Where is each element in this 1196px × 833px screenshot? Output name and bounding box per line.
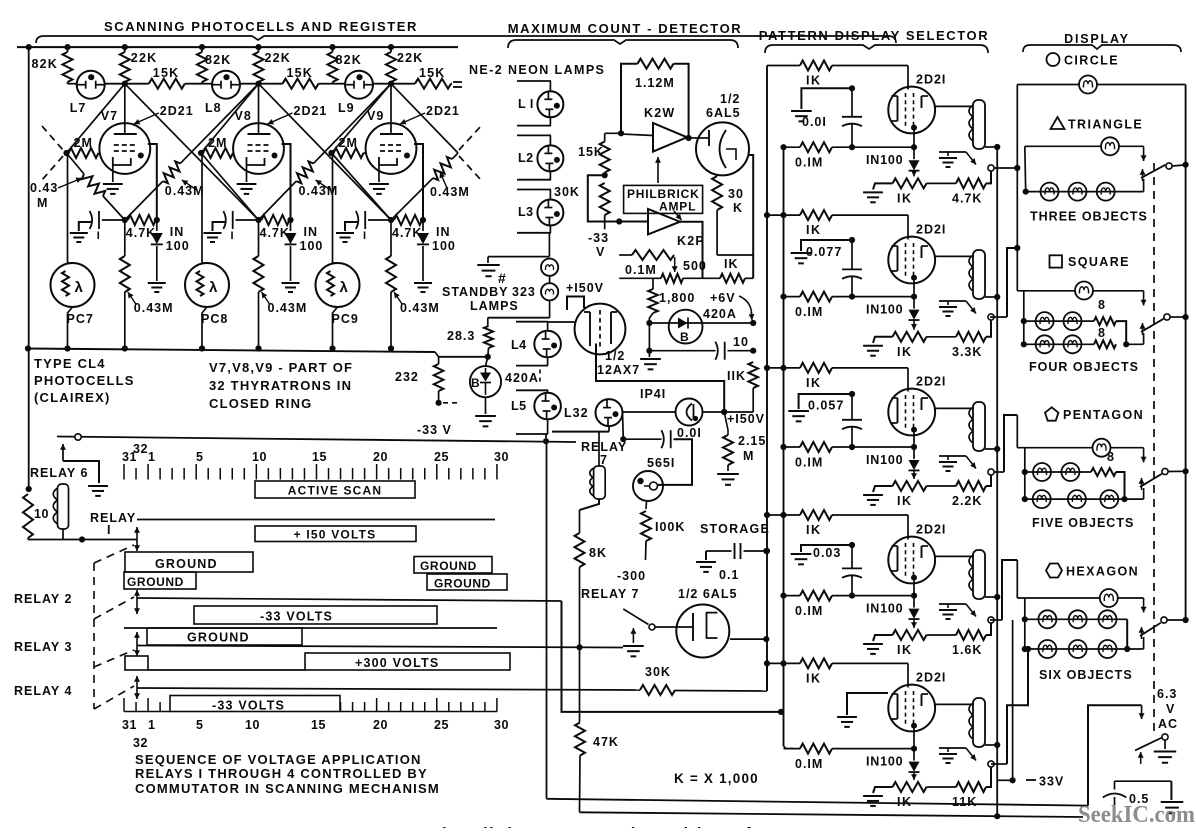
grid capacitor block stage 1 [801, 88, 852, 109]
svg-text:IK: IK [806, 223, 822, 237]
thyratron 2D21 stage 5 [888, 685, 935, 732]
thyratron 2D21 stage 4 [888, 537, 935, 584]
standby lamps ground [488, 256, 549, 258]
potentiometer 1K stage 2 [893, 332, 927, 342]
resistor 0.43M on cross wire 1 [163, 161, 180, 183]
svg-text:TRIANGLE: TRIANGLE [1068, 118, 1143, 132]
svg-text:82K: 82K [32, 57, 59, 71]
arrow box to K2P [674, 211, 682, 220]
svg-text:ACTIVE SCAN: ACTIVE SCAN [288, 484, 383, 498]
svg-text:1/2: 1/2 [720, 92, 740, 106]
photocell PC7 [67, 153, 69, 263]
junction on top bus [199, 44, 205, 50]
V7 cathode [113, 157, 131, 165]
resistor 1,800 [652, 278, 654, 289]
resistor 4.7K stage 9 [394, 215, 422, 225]
svg-text:30: 30 [728, 187, 744, 201]
svg-text:8: 8 [1107, 450, 1114, 464]
tube 1/2 6AL5 (relay7) [676, 605, 729, 658]
wire L3 to standby lamps [548, 233, 550, 257]
svg-text:0.IM: 0.IM [795, 305, 823, 319]
svg-text:0.1M: 0.1M [625, 263, 657, 277]
resistor 2M (stage 9) [334, 148, 364, 158]
svg-text:V8: V8 [235, 109, 252, 123]
svg-text:L7: L7 [70, 101, 87, 115]
display lamp hexagon-group [1017, 597, 1099, 599]
PHILBRICK AMPL box [624, 185, 703, 213]
V9 plate [380, 133, 403, 135]
svg-text:SCANNING PHOTOCELLS AND REGIST: SCANNING PHOTOCELLS AND REGISTER [104, 19, 418, 34]
wire standby to 28.3 [549, 300, 551, 317]
V7 plate lead [124, 84, 126, 134]
svg-text:RELAY 4: RELAY 4 [14, 684, 72, 698]
neon lamp L3 [517, 189, 551, 191]
selector switch pentagon-group [1140, 474, 1162, 487]
AC switch [1135, 738, 1162, 751]
svg-text:I: I [231, 230, 234, 242]
bottom scale -33 VOLTS box [170, 696, 340, 712]
svg-text:IK: IK [897, 345, 913, 359]
svg-text:+I50V: +I50V [566, 281, 604, 295]
output coil stage 5 [973, 698, 985, 747]
svg-text:1: 1 [148, 450, 155, 464]
svg-text:RELAYS I THROUGH 4 CONTROLLED: RELAYS I THROUGH 4 CONTROLLED BY [135, 766, 428, 781]
selector switch hexagon-group [1140, 623, 1161, 636]
brace under display title [1023, 45, 1181, 52]
12AX7 cathode wire [596, 344, 724, 413]
svg-text:2D21: 2D21 [426, 104, 460, 118]
thyratron 2D21 stage 2 [888, 237, 935, 284]
svg-text:K: K [733, 201, 743, 215]
display dashed common [1153, 163, 1155, 731]
tube cathode wire stage 2 [913, 281, 915, 297]
coupling to plate coil stage 4 [935, 555, 973, 557]
svg-text:30K: 30K [645, 665, 671, 679]
svg-text:4.7K: 4.7K [952, 191, 982, 205]
icon pentagon [1045, 407, 1058, 420]
resistor 0.1M stage 3 [780, 444, 786, 450]
svg-text:λ: λ [340, 279, 349, 296]
V7 internal dot [138, 153, 144, 159]
GROUND box relay3 [147, 628, 302, 645]
capacitor 10 [646, 348, 652, 354]
svg-text:HEXAGON: HEXAGON [1066, 565, 1139, 579]
resistor 1.6K stage 4 [927, 634, 957, 636]
resistor 1K grid stage 4 [764, 512, 770, 518]
junction on top bus [388, 44, 394, 50]
display feed stage4 [990, 619, 1002, 621]
junction storage line on outer bus [764, 548, 770, 554]
svg-text:15K: 15K [153, 66, 180, 80]
V7 anode-to-ring wire [148, 144, 157, 220]
svg-text:0.057: 0.057 [808, 399, 844, 413]
selector contact stage 2 [988, 314, 994, 320]
coil return to lamp bus stage 3 [985, 448, 997, 450]
icon circle [1047, 53, 1060, 66]
six objects lamp row 1 [1022, 616, 1028, 622]
selector switch ground stage 2 [939, 300, 966, 302]
svg-text:IN: IN [304, 225, 319, 239]
junction 4.7K right stage 7 [154, 217, 160, 223]
coil return to lamp bus stage 4 [985, 596, 997, 598]
svg-text:LAMPS: LAMPS [470, 299, 519, 313]
svg-text:IN100: IN100 [866, 755, 903, 769]
output coil stage 2 [973, 250, 985, 299]
svg-text:PC8: PC8 [201, 312, 228, 326]
resistor 1K grid stage 3 [764, 365, 770, 371]
12AX7 input from lamp chain [548, 321, 575, 323]
commutator scale ticks top [123, 464, 125, 480]
svg-text:1.6K: 1.6K [952, 643, 982, 657]
svg-text:11K: 11K [952, 795, 977, 809]
svg-text:25: 25 [434, 450, 449, 464]
grid capacitor block stage 2 [801, 240, 852, 251]
svg-text:STORAGE: STORAGE [700, 522, 770, 536]
standby lamp A [541, 259, 558, 276]
relay 4 linkage arrow [136, 676, 138, 687]
junction on top bus [122, 44, 128, 50]
relay 3 linkage arrow [136, 632, 138, 644]
display feed stage2 [990, 316, 1007, 318]
junction relay6 line [543, 438, 549, 444]
svg-text:IN100: IN100 [866, 303, 903, 317]
selector outer bus [766, 66, 768, 692]
svg-text:232: 232 [395, 370, 419, 384]
svg-text:IN100: IN100 [866, 153, 903, 167]
resistor 2.2K stage 3 [927, 485, 957, 487]
resistor 28.3 [487, 318, 489, 326]
junction on top bus [255, 44, 261, 50]
V8 plate [248, 133, 271, 135]
resistor 0.1M stage 5 [784, 748, 801, 750]
svg-text:47K: 47K [593, 735, 619, 749]
svg-text:IK: IK [897, 494, 913, 508]
selector contact stage 5 [988, 761, 994, 767]
svg-text:2D2I: 2D2I [916, 223, 946, 237]
grid capacitor block stage 3 [799, 394, 852, 409]
wire 6AL5 cathode down [749, 155, 754, 278]
svg-text:SQUARE: SQUARE [1068, 255, 1130, 269]
diamond edges stage 7 [67, 84, 125, 153]
wire grid to tube stage 3 [907, 368, 909, 392]
svg-text:IK: IK [897, 643, 913, 657]
relay 6 contact line [57, 437, 576, 443]
svg-text:IIK: IIK [727, 369, 746, 383]
display lamp circle-group [1017, 84, 1079, 86]
svg-text:FIVE OBJECTS: FIVE OBJECTS [1032, 516, 1134, 530]
arrow from 2D21 label to V8 [268, 113, 293, 124]
svg-text:IP4I: IP4I [640, 387, 666, 401]
wire grid to tube stage 2 [907, 215, 909, 239]
svg-text:TYPE CL4: TYPE CL4 [34, 356, 106, 371]
coil return to lamp bus stage 1 [985, 146, 997, 148]
svg-text:IN100: IN100 [866, 453, 903, 467]
resistor 30 K (6AL5 load) [712, 176, 722, 210]
resistor 0.1M stage 1 [780, 144, 786, 150]
V7 grid (dashed) [114, 144, 136, 146]
svg-text:-33 VOLTS: -33 VOLTS [212, 699, 285, 713]
svg-text:420A: 420A [703, 307, 737, 321]
V7 plate [114, 133, 137, 135]
wire grid to tube stage 4 [907, 515, 909, 540]
svg-text:I: I [363, 230, 366, 242]
potentiometer 1K stage 4 [893, 630, 927, 640]
svg-text:25: 25 [434, 718, 449, 732]
svg-text:STANDBY: STANDBY [442, 285, 509, 299]
small box relay4 row [125, 656, 148, 670]
svg-text:PENTAGON: PENTAGON [1063, 408, 1144, 422]
diode IN100 stage 7 [156, 220, 158, 231]
photocell PC8 [201, 153, 203, 263]
junction 28.3 / 232 / diode B [485, 354, 491, 360]
svg-text:-33: -33 [588, 231, 609, 245]
resistor 82K (stage 8) [201, 47, 203, 52]
svg-text:22K: 22K [131, 51, 158, 65]
svg-text:0.03: 0.03 [813, 546, 841, 560]
svg-text:8K: 8K [589, 546, 607, 560]
svg-text:15K: 15K [578, 145, 604, 159]
junction left vertex stage 9 [328, 150, 334, 156]
svg-text:-300: -300 [617, 569, 646, 583]
resistor 11K stage 5 [927, 786, 957, 788]
svg-text:0.43M: 0.43M [400, 301, 440, 315]
resistor 2M (stage 7) [69, 148, 99, 158]
svg-text:RELAY 7: RELAY 7 [581, 587, 639, 601]
thyratron 2D21 stage 1 [888, 87, 935, 134]
resistor 0.43M right of V9 [433, 157, 452, 180]
svg-text:PC9: PC9 [332, 312, 359, 326]
ring cross wire 7b with 0.43M [180, 84, 258, 164]
neon lamp L2 [517, 134, 551, 136]
diode IN100 stage 8 [290, 220, 292, 231]
potentiometer 500 [619, 277, 661, 279]
relay 2 GROUND box c [414, 557, 492, 574]
svg-text:0.IM: 0.IM [795, 156, 823, 170]
tube cathode wire stage 3 [913, 433, 915, 448]
svg-text:NE-2 NEON LAMPS: NE-2 NEON LAMPS [469, 63, 605, 77]
V8 grid (dashed) [248, 144, 270, 146]
relay 3 rest line [124, 627, 497, 629]
potentiometer 500 wiper arrow [674, 257, 676, 272]
four objects lamp row 1 [1021, 318, 1027, 324]
resistor 0.1M stage 2 [780, 294, 786, 300]
three objects lamp row [1023, 189, 1029, 195]
tube cathode wire stage 1 [913, 131, 915, 148]
diamond edges stage 9 [332, 84, 392, 153]
mechanical linkage dashed lines [93, 563, 95, 709]
resistor 4.7K stage 8 [262, 215, 290, 225]
svg-text:15K: 15K [419, 66, 446, 80]
svg-text:20: 20 [373, 450, 388, 464]
resistor 82K (stage 7) [67, 47, 69, 52]
junction on top bus [26, 44, 32, 50]
bottom vertex junction stage 9 [388, 217, 394, 223]
svg-text:RELAY 3: RELAY 3 [14, 640, 72, 654]
resistor 15K (stage 8) [259, 83, 283, 85]
svg-text:420A: 420A [505, 371, 539, 385]
svg-text:IK: IK [724, 257, 739, 271]
resistor 82K (stage 9) [332, 47, 334, 52]
four objects lamp row 2 [1021, 341, 1027, 347]
svg-text:0.IM: 0.IM [795, 757, 823, 771]
svg-text:IK: IK [806, 523, 822, 537]
svg-text:2D21: 2D21 [294, 104, 328, 118]
resistor 3.3K stage 2 [927, 336, 957, 338]
svg-text:10: 10 [34, 507, 49, 521]
svg-text:30: 30 [494, 718, 509, 732]
svg-text:30K: 30K [554, 185, 580, 199]
svg-text:323: 323 [512, 285, 536, 299]
svg-text:2D2I: 2D2I [916, 375, 946, 389]
wire grid to tube stage 5 [907, 663, 909, 687]
storage capacitor 0.1 [706, 550, 732, 552]
display lamp square-group [1017, 290, 1075, 292]
svg-text:1: 1 [148, 718, 155, 732]
resistor 232 [435, 352, 439, 357]
svg-text:THREE OBJECTS: THREE OBJECTS [1030, 210, 1148, 224]
relay 7 coil [552, 431, 609, 433]
continuation mark [453, 81, 462, 83]
svg-text:IN100: IN100 [866, 602, 903, 616]
svg-text:hen lights up at each pos: hen lights up at each position of [442, 824, 752, 828]
display right bus [1185, 85, 1187, 621]
svg-text:0.IM: 0.IM [795, 604, 823, 618]
svg-text:-33 VOLTS: -33 VOLTS [260, 610, 333, 624]
svg-text:100: 100 [300, 239, 324, 253]
svg-text:1.12M: 1.12M [635, 76, 675, 90]
svg-text:0.1: 0.1 [719, 568, 739, 582]
svg-text:PHOTOCELLS: PHOTOCELLS [34, 373, 135, 388]
coil return to lamp bus stage 5 [985, 744, 997, 746]
svg-text:L4: L4 [511, 338, 527, 352]
photocell PC9 [332, 153, 334, 263]
grid capacitor block stage 4 [801, 545, 852, 552]
tube cathode wire stage 5 [913, 729, 915, 749]
svg-text:V7: V7 [101, 109, 118, 123]
selector inner bus [783, 147, 785, 746]
relay 1 timing line [137, 519, 495, 521]
five objects lamp row 1 [1022, 469, 1028, 475]
svg-text:SeekIC.com: SeekIC.com [1078, 802, 1195, 828]
svg-text:6AL5: 6AL5 [706, 106, 741, 120]
svg-text:SEQUENCE OF VOLTAGE APPLICATIO: SEQUENCE OF VOLTAGE APPLICATION [135, 752, 422, 767]
svg-text:RELAY: RELAY [90, 511, 136, 525]
svg-text:GROUND: GROUND [420, 559, 477, 573]
relay 2 GROUND box a [125, 552, 253, 572]
svg-text:1/2: 1/2 [605, 349, 625, 363]
wire relay7 coil to 8K [580, 499, 600, 510]
bottom feed line to AC switch [546, 441, 548, 799]
svg-text:0.077: 0.077 [806, 245, 842, 259]
brace under middle title [508, 40, 738, 48]
svg-text:2D2I: 2D2I [916, 73, 946, 87]
svg-text:33V: 33V [1039, 775, 1064, 789]
resistor 22K (stage 8) [258, 47, 260, 52]
tube cathode wire stage 4 [913, 581, 915, 596]
K2P output wire [680, 222, 703, 279]
relay2 wire down and to selector bus [562, 601, 782, 712]
svg-text:GROUND: GROUND [155, 557, 218, 571]
junction 15K/30K [604, 173, 606, 176]
svg-text:28.3: 28.3 [447, 329, 475, 343]
relay 6 coil [62, 444, 64, 461]
resistor 1.12M feedback [621, 64, 638, 134]
svg-text:15: 15 [311, 718, 326, 732]
junction bottom bus stage 8 [255, 345, 261, 351]
resistor 1K grid stage 2 [764, 212, 770, 218]
svg-text:2D2I: 2D2I [916, 671, 946, 685]
neon lamp L1 [517, 80, 551, 82]
resistor 1K grid stage 5 [764, 660, 770, 666]
six objects lamp row 2 [1022, 646, 1028, 652]
svg-text:L32: L32 [564, 406, 589, 420]
svg-text:L5: L5 [511, 399, 527, 413]
svg-text:7: 7 [600, 453, 607, 467]
V9 anode-to-ring wire [414, 144, 423, 220]
svg-text:0.43: 0.43 [30, 181, 58, 195]
grid capacitor stage 9 [368, 219, 391, 221]
wire grid to tube stage 1 [907, 66, 909, 90]
tube 1/2 12AX7 [575, 304, 626, 355]
svg-text:5: 5 [196, 450, 203, 464]
svg-text:10: 10 [733, 335, 749, 349]
svg-text:(CLAIREX): (CLAIREX) [34, 390, 111, 405]
display lamp triangle-group [1025, 145, 1101, 147]
resistor 8K [579, 510, 581, 533]
svg-text:K2W: K2W [644, 106, 675, 120]
V8 anode-to-ring wire [282, 144, 291, 220]
icon hexagon [1046, 564, 1062, 578]
svg-text:1,800: 1,800 [659, 291, 695, 305]
svg-text:10: 10 [252, 450, 267, 464]
V9 internal dot [404, 153, 410, 159]
svg-text:FOUR OBJECTS: FOUR OBJECTS [1029, 360, 1139, 374]
display feed stage5 [991, 763, 1007, 765]
junction lamp line stage 9 [388, 81, 394, 87]
svg-text:I00K: I00K [655, 520, 685, 534]
diode B (standby) [486, 357, 488, 366]
relay 4 timing line with 30K [137, 688, 640, 690]
selector switch triangle-group [1141, 165, 1165, 178]
five objects lamp row 2 [1022, 496, 1028, 502]
capacitor 0.01 (1P41) [622, 412, 625, 439]
resistor 15K (detector) [604, 133, 606, 141]
wire to 33V [1012, 620, 1014, 780]
brace under left title [36, 36, 896, 43]
brace under selector title [765, 45, 988, 53]
svg-text:-33 V: -33 V [417, 423, 452, 437]
diode IN100 stage 9 [422, 220, 424, 231]
svg-text:15: 15 [312, 450, 327, 464]
relay 4 rest line [148, 669, 305, 671]
capacitor 0.5 [1115, 780, 1172, 782]
svg-text:+300 VOLTS: +300 VOLTS [355, 656, 439, 670]
svg-text:B: B [680, 330, 689, 344]
ring edge stage3 right [391, 84, 458, 153]
svg-text:82K: 82K [205, 53, 232, 67]
V8 internal dot [272, 153, 278, 159]
svg-text:5: 5 [196, 718, 203, 732]
svg-text:M: M [743, 449, 754, 463]
svg-text:IK: IK [806, 671, 822, 685]
svg-text:32: 32 [133, 442, 148, 456]
resistor 100K [645, 501, 648, 509]
junction left vertex stage 8 [198, 150, 204, 156]
svg-text:100: 100 [432, 239, 456, 253]
resistor 0.43M cathode stage 7 [124, 220, 126, 256]
label 33V [1026, 779, 1036, 781]
relay 2 GROUND box d [427, 574, 507, 590]
